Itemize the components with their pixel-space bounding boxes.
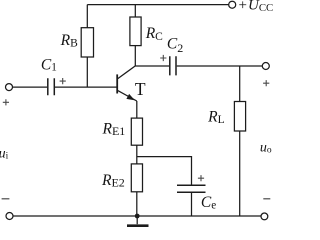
- terminal output bottom: [261, 213, 268, 220]
- wire collector to C2: [135, 65, 169, 67]
- wire between RE1 and RE2: [136, 145, 138, 164]
- node input minus sign: [2, 198, 10, 200]
- resistor RE1: [131, 118, 142, 145]
- svg-text:Ce: Ce: [201, 194, 216, 211]
- terminal input bottom: [6, 213, 13, 220]
- capacitor Ce: [177, 185, 206, 192]
- node emitter ground junction: [135, 214, 140, 219]
- wire C1 to base: [55, 86, 117, 88]
- node uo label: [260, 140, 272, 155]
- svg-text:C1: C1: [41, 56, 57, 73]
- svg-text:RC: RC: [145, 25, 163, 43]
- transistor T: [116, 74, 118, 93]
- wire RE2 bottom lead: [136, 192, 138, 216]
- svg-text:RE2: RE2: [101, 172, 125, 190]
- resistor RE2: [131, 164, 142, 192]
- ground: [136, 216, 138, 224]
- node output minus sign: [263, 198, 270, 200]
- terminal output top: [262, 63, 269, 70]
- node output plus sign: [263, 80, 269, 86]
- capacitor C1: [48, 78, 55, 95]
- svg-text:C2: C2: [167, 36, 183, 55]
- node C1 plus sign: [60, 78, 66, 84]
- svg-text:+UCC: +UCC: [239, 0, 274, 14]
- capacitor C2: [170, 56, 176, 75]
- svg-text:RE1: RE1: [102, 120, 126, 138]
- wire RC branch top: [134, 5, 136, 17]
- terminal input: [6, 84, 13, 91]
- svg-text:T: T: [135, 79, 146, 99]
- wire input to C1: [13, 86, 48, 88]
- node +UCC label: [239, 0, 274, 14]
- wire RC bottom lead to collector node: [134, 46, 136, 66]
- resistor RB: [81, 28, 93, 57]
- node Ce plus sign: [198, 175, 204, 181]
- terminal +UCC: [229, 1, 236, 8]
- wire bottom rail: [13, 215, 261, 217]
- wire C2 to output terminal: [177, 65, 263, 67]
- svg-text:RB: RB: [60, 32, 78, 50]
- wire RL branch: [239, 66, 241, 102]
- svg-text:ui: ui: [0, 146, 9, 161]
- wire emitter vertical: [136, 101, 138, 118]
- wire emitter junction to Ce: [137, 157, 192, 186]
- svg-text:uo: uo: [260, 140, 272, 155]
- wire RB branch top: [86, 5, 88, 28]
- resistor RL: [234, 102, 245, 132]
- node ui label: [0, 146, 9, 161]
- resistor RC: [130, 17, 141, 46]
- wire RB bottom lead: [86, 57, 88, 87]
- node C2 plus sign: [160, 55, 166, 61]
- node input plus sign: [3, 99, 9, 105]
- wire RL bottom lead: [239, 131, 241, 216]
- svg-text:RL: RL: [207, 109, 225, 127]
- wire top supply rail: [87, 4, 228, 6]
